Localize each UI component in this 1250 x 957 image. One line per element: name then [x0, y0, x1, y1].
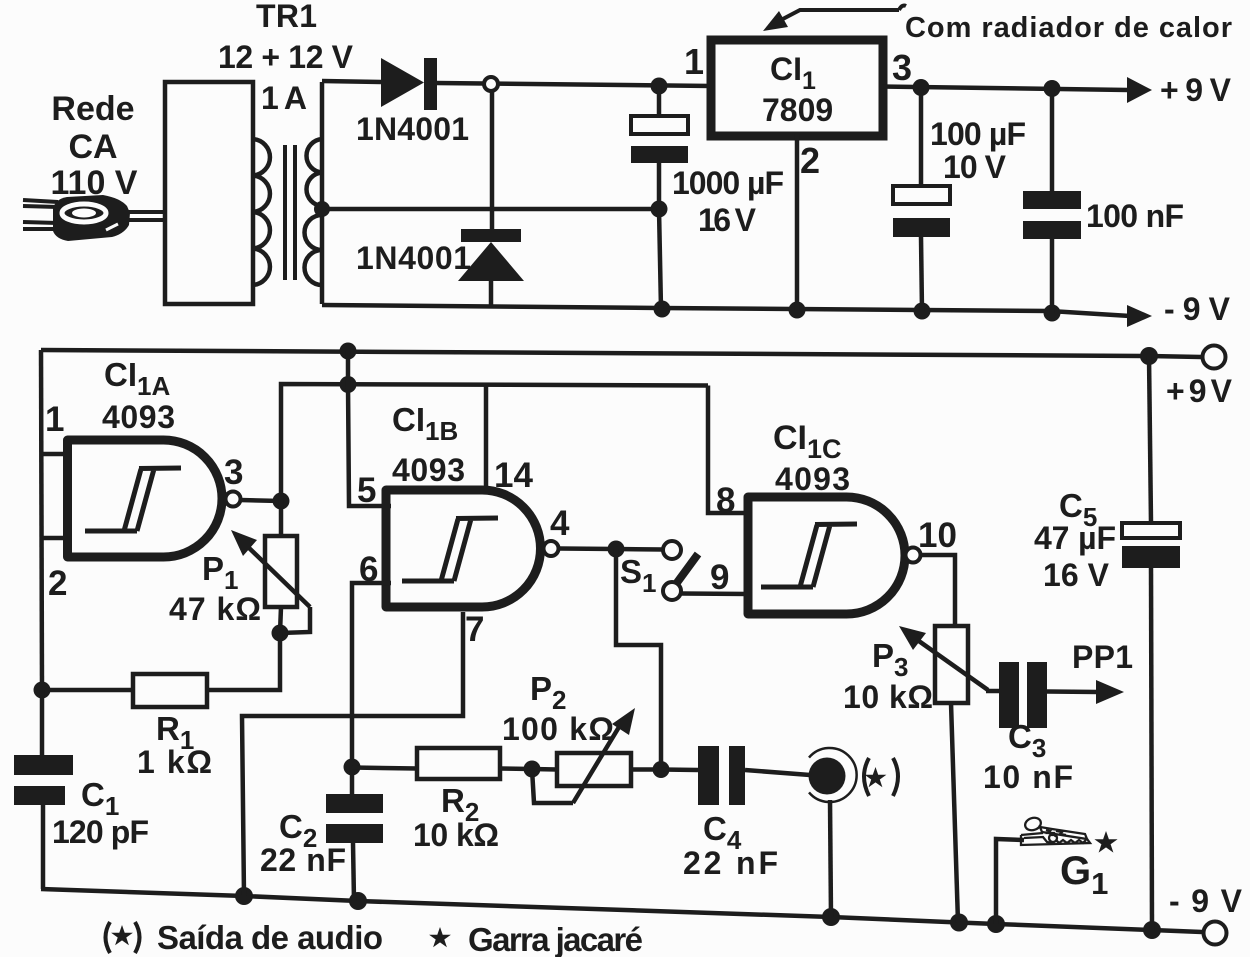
svg-text:10 kΩ: 10 kΩ — [413, 817, 499, 853]
svg-text:16 V: 16 V — [698, 202, 757, 238]
output bubble gate C — [906, 548, 921, 563]
svg-text:P1: P1 — [202, 550, 238, 595]
svg-text:9: 9 — [710, 558, 729, 597]
wire to gate C pin 8 — [708, 386, 749, 514]
svg-text:Garra jacaré: Garra jacaré — [468, 921, 643, 957]
svg-text:22 nF: 22 nF — [683, 845, 778, 881]
svg-text:1 kΩ: 1 kΩ — [137, 744, 212, 780]
svg-text:4: 4 — [550, 504, 570, 543]
svg-text:1: 1 — [684, 41, 704, 82]
schmitt symbol gate B — [402, 518, 498, 581]
svg-text:4093: 4093 — [392, 452, 465, 488]
svg-text:P2: P2 — [530, 670, 566, 715]
wire pin 14 drop — [484, 385, 489, 491]
schmitt symbol gate A — [85, 468, 181, 531]
svg-text:TR1: TR1 — [256, 0, 317, 34]
output bubble gate B — [544, 541, 559, 556]
wire secondary top to diode D1 — [322, 81, 381, 82]
svg-text:Saída de audio: Saída de audio — [157, 919, 383, 956]
wire gate A output up and across — [281, 384, 708, 501]
svg-text:120 pF: 120 pF — [52, 814, 149, 850]
junction dot rail drop — [340, 376, 357, 393]
wire negative rail top section — [322, 305, 1130, 316]
svg-text:G1: G1 — [1060, 849, 1108, 901]
wire -9V rail bottom section — [41, 889, 1202, 932]
svg-text:- 9 V: - 9 V — [1164, 291, 1231, 327]
wire gate B pin 6 to C2 — [352, 583, 391, 767]
arrow +9V top section — [1127, 77, 1152, 103]
star audio out — [865, 767, 887, 787]
caption (*) Saida de audio — [106, 922, 111, 953]
capacitor 100nF — [1050, 89, 1055, 192]
svg-text:CI1C: CI1C — [773, 419, 842, 464]
svg-text:12 + 12 V: 12 + 12 V — [218, 39, 354, 75]
AC plug prong 1 — [23, 200, 58, 207]
junction dots -9V rail — [235, 887, 253, 905]
wire gate C output to P3 — [921, 555, 955, 626]
svg-text:2: 2 — [48, 564, 67, 603]
capacitor C3 — [999, 662, 1019, 728]
junction dot at 1000uF top — [651, 78, 668, 95]
svg-text:1N4001: 1N4001 — [356, 111, 469, 147]
junction dot rail left gate feed — [340, 343, 357, 360]
wire G1 to rail — [996, 839, 1024, 924]
resistor R2 — [352, 768, 417, 769]
svg-text:10 V: 10 V — [943, 149, 1007, 185]
op-amp U1C nand gate CI1C body — [748, 497, 905, 614]
svg-text:4093: 4093 — [102, 399, 175, 435]
svg-text:10 kΩ: 10 kΩ — [843, 679, 933, 715]
potentiometer P2 — [532, 767, 557, 772]
svg-text:CA: CA — [68, 128, 117, 166]
svg-text:110 V: 110 V — [51, 164, 138, 202]
wire CI1 pin2 down — [795, 134, 800, 310]
svg-text:- 9 V: - 9 V — [1169, 883, 1243, 919]
capacitor C5 on right rail — [1149, 356, 1151, 523]
op-amp U1A nand gate CI1A body — [68, 440, 223, 557]
svg-text:4093: 4093 — [775, 461, 850, 497]
star garra jacare — [429, 927, 451, 947]
switch S1 — [663, 541, 681, 559]
arrow -9V top section — [1127, 305, 1152, 327]
AC plug body — [53, 195, 130, 241]
svg-text:1 A: 1 A — [261, 80, 307, 116]
svg-text:Com radiador de calor: Com radiador de calor — [905, 12, 1232, 44]
diode D1 1N4001 top — [381, 58, 424, 107]
svg-text:47 µF: 47 µF — [1034, 520, 1116, 556]
star G1 — [1094, 831, 1117, 853]
svg-text:CI1B: CI1B — [392, 401, 458, 446]
alligator clip G1 — [1021, 816, 1090, 845]
svg-text:3: 3 — [892, 47, 912, 88]
wire P3 wiper to C3 — [986, 689, 999, 694]
svg-text:7: 7 — [465, 610, 484, 649]
wire gate B output pin 4 — [559, 546, 616, 551]
transformer TR1 secondary — [320, 82, 325, 304]
audio output jack — [809, 758, 846, 795]
svg-text:P3: P3 — [872, 637, 908, 682]
node rectifier output (ring junction) — [484, 77, 498, 91]
wire rail to junction — [346, 351, 351, 385]
output bubble gate A — [226, 492, 241, 507]
svg-text:1N4001: 1N4001 — [356, 240, 471, 276]
capacitor C1 — [40, 690, 45, 755]
AC plug prong 2 — [23, 222, 58, 229]
svg-text:CI1A: CI1A — [104, 356, 170, 401]
capacitor C 1000uF — [657, 86, 662, 116]
svg-text:8: 8 — [716, 481, 735, 520]
arrow PP1 — [1096, 680, 1124, 704]
potentiometer P3 — [935, 626, 968, 703]
svg-text:1: 1 — [45, 400, 64, 439]
wire D1 cathode to CI1 pin 1 — [436, 83, 712, 86]
svg-text:3: 3 — [224, 453, 243, 492]
svg-text:+ 9 V: + 9 V — [1160, 72, 1232, 108]
heat sink arrow — [779, 6, 906, 22]
wire left vertical to gate A inputs — [41, 350, 42, 690]
terminal +9V bottom section — [1203, 346, 1226, 369]
svg-text:10 nF: 10 nF — [983, 759, 1073, 795]
svg-text:Rede: Rede — [51, 90, 134, 128]
svg-text:47 kΩ: 47 kΩ — [169, 591, 261, 627]
svg-text:100 nF: 100 nF — [1086, 198, 1184, 234]
svg-text:1000 µF: 1000 µF — [672, 165, 784, 201]
svg-text:+ 9 V: + 9 V — [1166, 373, 1233, 409]
capacitor 100uF — [919, 88, 924, 187]
wire gate B pin 5 — [348, 385, 391, 507]
node center tap dot — [314, 201, 330, 217]
svg-text:2: 2 — [800, 140, 820, 181]
terminal -9V bottom section — [1204, 922, 1227, 945]
label (*) audio out — [864, 758, 869, 796]
diode D2 1N4001 bottom — [461, 229, 521, 242]
resistor R1 — [42, 688, 133, 693]
svg-text:5: 5 — [357, 471, 376, 510]
svg-text:7809: 7809 — [762, 92, 833, 128]
svg-text:16 V: 16 V — [1043, 557, 1110, 593]
svg-text:100 kΩ: 100 kΩ — [502, 711, 614, 747]
svg-text:10: 10 — [918, 516, 957, 555]
regulator CI1 7809 — [711, 40, 883, 136]
svg-text:22 nF: 22 nF — [260, 842, 346, 878]
svg-text:100 µF: 100 µF — [930, 116, 1026, 152]
wire gate A output to junction — [240, 500, 281, 501]
capacitor C4 — [661, 767, 698, 772]
wire CI1 pin3 to +9V — [882, 87, 1128, 91]
transformer TR1 primary — [165, 82, 253, 304]
wire pin4 down to P2 right — [616, 549, 661, 770]
capacitor C2 — [350, 767, 355, 794]
op-amp U1B nand gate CI1B body — [386, 490, 541, 607]
junction dots negative rail — [654, 301, 671, 318]
wire +9V rail bottom section — [41, 350, 1201, 357]
transformer TR1 core — [285, 145, 295, 280]
wire gate A pin 2 stub — [42, 536, 68, 541]
wire gate A pin 1 stub — [41, 452, 68, 457]
wire center tap — [322, 207, 659, 212]
potentiometer P1 — [279, 501, 284, 536]
wire S1 to gate C pin 9 — [681, 591, 749, 596]
wire plug cord to transformer — [126, 212, 166, 220]
wire D2 cathode vertical — [490, 91, 495, 229]
schmitt symbol gate C — [761, 524, 857, 587]
svg-text:PP1: PP1 — [1072, 639, 1133, 675]
wire gate B pin 7 to rail — [242, 612, 463, 896]
svg-text:S1: S1 — [620, 553, 656, 598]
